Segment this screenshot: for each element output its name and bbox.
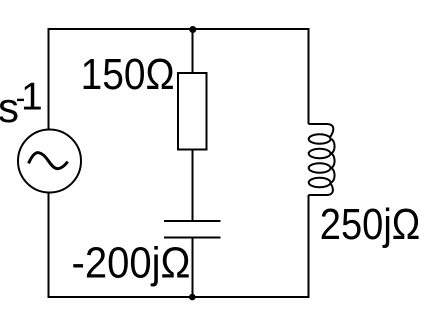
svg-text:1: 1 <box>21 75 43 118</box>
inductor lead-out <box>309 183 333 195</box>
wire capacitor to bottom <box>192 239 194 298</box>
resistor R 150ohm body <box>178 73 207 150</box>
capacitor C bottom plate <box>164 237 221 239</box>
node junction dot top <box>189 26 196 33</box>
svg-text:s: s <box>0 84 19 131</box>
inductor L lead-in <box>309 124 334 138</box>
ac source V1 circle <box>18 130 81 193</box>
svg-text:-200jΩ: -200jΩ <box>72 239 191 288</box>
label rad/s unit: superscript minus <box>17 99 24 101</box>
inductor link arc 3 <box>330 168 334 183</box>
inductor loop 2 <box>309 149 331 158</box>
inductor link arc 1 <box>330 139 334 154</box>
wire bottom section: left down, bottom, right up to inductor <box>49 193 309 298</box>
inductor loop 1 <box>309 134 331 143</box>
svg-text:150Ω: 150Ω <box>81 50 175 99</box>
inductor loop 3 <box>309 163 331 172</box>
wire resistor to capacitor <box>192 150 194 221</box>
inductor loop 4 <box>309 178 331 187</box>
capacitor C top plate <box>164 220 221 222</box>
wire middle branch top <box>192 29 194 73</box>
ac source sine wave <box>29 153 68 169</box>
wire top-left + top + right down to inductor <box>49 29 309 130</box>
svg-text:250jΩ: 250jΩ <box>320 200 421 249</box>
inductor link arc 2 <box>330 154 334 169</box>
node junction dot bottom <box>189 294 196 301</box>
